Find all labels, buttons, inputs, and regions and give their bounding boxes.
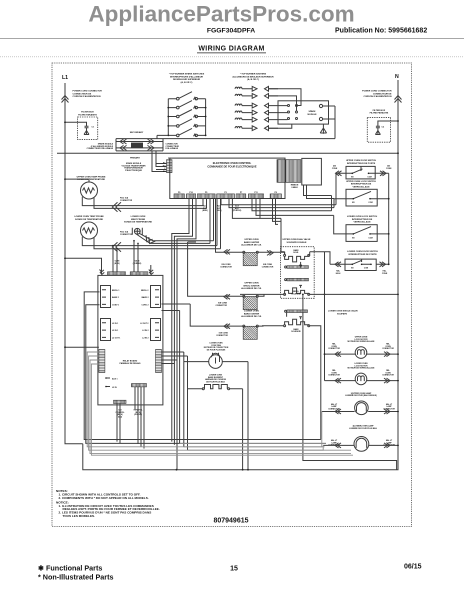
probe2 connector arrows — [112, 242, 121, 251]
svg-text:CONN: CONN — [332, 168, 338, 170]
valve resistor bar 2 — [285, 279, 287, 281]
svg-text:L2 IN 2: L2 IN 2 — [142, 330, 148, 332]
connector P11 — [248, 194, 263, 199]
svg-text:P3: P3 — [224, 192, 226, 194]
wire L1 upper tap — [65, 179, 89, 182]
wire probe1 leads — [82, 197, 206, 209]
svg-text:CORDON D'ALIMENTATION: CORDON D'ALIMENTATION — [73, 95, 101, 98]
lower oven door switch box — [345, 259, 376, 270]
spark switch rail left — [167, 99, 169, 136]
upper oven broil igniter — [243, 295, 258, 309]
wire top horizontal bus — [116, 138, 335, 140]
svg-text:VERROUILLAGE: VERROUILLAGE — [353, 221, 371, 224]
svg-text:D'ELECTRONIQUE: D'ELECTRONIQUE — [125, 170, 143, 172]
wire mid vertical 177.5 — [162, 311, 180, 470]
connector P5 — [197, 194, 215, 199]
wire N to filter box — [378, 121, 398, 126]
svg-text:MOTEUR DE VERROUILLAGE: MOTEUR DE VERROUILLAGE — [348, 340, 376, 343]
svg-text:CONNECTOR: CONNECTOR — [215, 305, 227, 307]
spark switch row 2 — [168, 101, 205, 109]
meat probe connector arrows — [146, 235, 155, 243]
svg-text:CONNECTOR: CONNECTOR — [382, 348, 394, 350]
spark module ground — [320, 124, 326, 134]
svg-text:* TOP BURNER IGNITERS: * TOP BURNER IGNITERS — [240, 74, 267, 76]
svg-text:SPARK: SPARK — [308, 110, 316, 113]
svg-text:P7: P7 — [240, 192, 242, 194]
svg-text:SONDE DE TEMPERATURE: SONDE DE TEMPERATURE — [75, 218, 103, 221]
ground in filter box N — [375, 131, 380, 136]
power cord connector N — [395, 96, 402, 103]
notes block — [56, 489, 160, 518]
spark switch row 4 — [168, 119, 205, 127]
spark transformer module block — [131, 143, 143, 148]
svg-text:NO: NO — [351, 268, 354, 270]
svg-text:NO: NO — [352, 202, 355, 204]
svg-text:L2 OUT 1: L2 OUT 1 — [112, 337, 120, 339]
svg-text:2. COMPONENTS WITH * DO NOT A: 2. COMPONENTS WITH * DO NOT APPEAR ON AL… — [59, 496, 149, 500]
svg-text:SOLE.: SOLE. — [293, 252, 299, 254]
svg-text:807949615: 807949615 — [213, 517, 248, 524]
lamp1 arrows — [335, 409, 390, 414]
svg-text:POWER CORD CONNECTOR: POWER CORD CONNECTOR — [362, 91, 392, 93]
svg-text:ALLUMEUR DE CUI.: ALLUMEUR DE CUI. — [241, 287, 262, 290]
wire lamp row 2 — [323, 444, 398, 446]
bake solenoid coil — [284, 254, 286, 256]
lower lock switch contacts — [346, 227, 377, 234]
svg-text:C1: C1 — [92, 127, 95, 129]
wire L1 to relay edge — [65, 346, 99, 348]
svg-text:UPPER OVEN DUAL VALVE: UPPER OVEN DUAL VALVE — [283, 238, 312, 241]
svg-text:BROIL IGNITER: BROIL IGNITER — [244, 285, 260, 287]
svg-text:UPPER OVEN: UPPER OVEN — [244, 283, 258, 285]
power cord connector L1 — [62, 96, 69, 103]
upper oven bake igniter — [243, 251, 258, 265]
lower oven lock switch box — [346, 225, 377, 242]
svg-text:(A, B OR C): (A, B OR C) — [181, 81, 193, 84]
svg-text:L2 IN 1: L2 IN 1 — [112, 330, 118, 332]
L2 in pin — [106, 386, 110, 388]
svg-text:(PURPLE): (PURPLE) — [233, 210, 242, 212]
wire igniter2 feeds — [188, 242, 264, 296]
svg-text:FGGF304DPFA: FGGF304DPFA — [207, 27, 255, 34]
svg-text:BAKE 2: BAKE 2 — [142, 296, 149, 299]
svg-text:CONNECTOR: CONNECTOR — [216, 335, 228, 337]
svg-text:Publication No: 5995661682: Publication No: 5995661682 — [335, 27, 427, 34]
wires EOC pins down right group — [221, 198, 336, 224]
svg-text:LOWER OVEN LOCK SWITCH: LOWER OVEN LOCK SWITCH — [347, 216, 378, 218]
spark module box — [278, 101, 329, 124]
diagram border frame — [52, 63, 412, 527]
svg-text:LUMIERE DE FOUR PLUS BAS: LUMIERE DE FOUR PLUS BAS — [349, 427, 377, 430]
display board box — [302, 158, 322, 185]
connector P3 — [217, 194, 235, 199]
svg-text:COM: COM — [364, 268, 369, 270]
wire lock motor row 2 — [325, 380, 399, 382]
lower door switch contacts — [345, 259, 371, 264]
svg-text:UPPER OVEN TEMP PROBE: UPPER OVEN TEMP PROBE — [77, 176, 106, 178]
igniter1 left arrow — [224, 249, 230, 254]
svg-text:CONNECTEUR D'ALLUMAGE: CONNECTEUR D'ALLUMAGE — [87, 147, 114, 150]
header rule — [0, 38, 464, 40]
relay edge connector left — [99, 350, 105, 373]
svg-text:LOWER OVEN TEMP PROBE: LOWER OVEN TEMP PROBE — [74, 216, 104, 218]
svg-text:CONN: CONN — [386, 168, 392, 170]
aux pin — [106, 377, 110, 379]
svg-text:CONNECTOR: CONNECTOR — [220, 266, 232, 268]
svg-text:CORDON D'ALIMENTATION: CORDON D'ALIMENTATION — [363, 95, 391, 98]
svg-text:BAKE IGNITER: BAKE IGNITER — [244, 312, 260, 315]
relay right pin block 2 — [151, 319, 161, 341]
ribbon cable — [277, 160, 301, 183]
wire valve top to rail — [281, 218, 325, 255]
svg-text:LOWER OVEN: LOWER OVEN — [244, 311, 259, 313]
svg-text:MODULE: MODULE — [307, 114, 317, 116]
svg-text:INTERRUPTEUR DE PORTE: INTERRUPTEUR DE PORTE — [347, 163, 376, 165]
svg-text:TOUS LES MODELES.: TOUS LES MODELES. — [63, 514, 96, 518]
harness relay feeds left — [84, 292, 326, 444]
upper oven lock switch box — [346, 189, 377, 206]
svg-text:06/15: 06/15 — [404, 564, 422, 571]
wire L1 to filter box — [65, 122, 87, 126]
connector P2 — [167, 160, 173, 173]
ground in filter box — [84, 131, 89, 136]
svg-text:D'ALLUMAGE: D'ALLUMAGE — [166, 147, 179, 150]
wire igniter3 feed — [190, 304, 263, 326]
svg-text:CONNECTOR: CONNECTOR — [120, 234, 133, 236]
svg-text:CABLE: CABLE — [291, 186, 298, 189]
conv fan motor — [209, 355, 223, 369]
svg-text:PRIMARY: PRIMARY — [130, 157, 140, 160]
svg-text:FILTRE PARASITE: FILTRE PARASITE — [78, 113, 97, 116]
svg-text:UPPER OVEN: UPPER OVEN — [244, 239, 258, 241]
svg-text:SECONDARY: SECONDARY — [130, 131, 144, 134]
svg-text:LUMIERE DE FOUR (EAU DESSUS): LUMIERE DE FOUR (EAU DESSUS) — [345, 394, 377, 397]
svg-text:NO: NO — [352, 237, 355, 239]
relay left pin block 1 — [101, 286, 111, 308]
svg-text:AppliancePartsPros.com: AppliancePartsPros.com — [88, 2, 354, 27]
svg-text:WIRING DIAGRAM: WIRING DIAGRAM — [198, 46, 264, 53]
svg-text:SOUPAPE: SOUPAPE — [337, 312, 348, 315]
svg-text:15: 15 — [230, 566, 238, 573]
spark switch rail right — [205, 99, 207, 136]
svg-text:SOLENOID: SOLENOID — [291, 293, 301, 295]
spark module pins — [288, 105, 298, 120]
spark module terminal N — [319, 117, 322, 120]
svg-text:DE BRULEUR SUPERIEUR: DE BRULEUR SUPERIEUR — [173, 79, 201, 81]
svg-text:BROIL 1: BROIL 1 — [112, 290, 119, 292]
harness loop from edge connector — [87, 352, 353, 455]
svg-text:CONNECTOR: CONNECTOR — [262, 266, 274, 268]
svg-text:P8: P8 — [275, 192, 277, 194]
wire probe2 leads — [82, 198, 220, 248]
svg-text:MEAT PROBE: MEAT PROBE — [131, 218, 146, 221]
switch rail dots — [167, 107, 206, 137]
lower oven bake element — [202, 385, 229, 390]
svg-text:P2: P2 — [168, 158, 170, 160]
svg-text:P5: P5 — [205, 192, 207, 194]
svg-text:C2: C2 — [382, 127, 385, 129]
wire igniter1 feed — [216, 198, 285, 254]
wire igniter1 feeds — [172, 198, 196, 452]
svg-text:COMMANDE DE FOUR ELECTRONIQUE: COMMANDE DE FOUR ELECTRONIQUE — [207, 165, 257, 169]
upper oven door switch box — [346, 166, 375, 179]
transformer chevrons left — [120, 139, 127, 150]
svg-text:L1: L1 — [62, 75, 68, 81]
svg-text:* TOP BURNER SPARK SWITCHES: * TOP BURNER SPARK SWITCHES — [169, 73, 205, 76]
spark switch row 3 — [168, 110, 205, 118]
wire upper lock row — [334, 198, 389, 200]
svg-text:UPPER OVEN DOOR SWITCH: UPPER OVEN DOOR SWITCH — [346, 160, 377, 162]
relay left pin block 2 — [101, 319, 111, 341]
wire valve return drop — [303, 294, 397, 469]
door switch connector arrows — [336, 171, 387, 176]
svg-text:PANNEAU DE RELAIS: PANNEAU DE RELAIS — [120, 362, 142, 365]
wire meat probe leads — [136, 198, 213, 243]
svg-text:VERROUILLAGE: VERROUILLAGE — [352, 186, 370, 189]
wires relay bottom drops — [117, 387, 144, 449]
svg-text:BAKE IGNITER: BAKE IGNITER — [244, 241, 260, 244]
svg-text:LOWER OVEN: LOWER OVEN — [131, 216, 146, 218]
wire module to N drop — [323, 106, 335, 139]
connector P9 — [174, 194, 184, 199]
lower lock motor — [355, 373, 367, 385]
svg-text:L2 IN: L2 IN — [112, 387, 117, 389]
svg-text:CONN: CONN — [382, 273, 388, 275]
svg-text:CONNECTOR: CONNECTOR — [120, 200, 133, 202]
switch right rail — [388, 173, 390, 264]
wire primary to P2 — [152, 151, 167, 172]
svg-text:COM: COM — [367, 177, 372, 179]
wire L1 to relay gate — [65, 258, 151, 274]
svg-text:FILTER BOX: FILTER BOX — [373, 110, 386, 112]
wire bottom return — [83, 444, 398, 470]
wire lamp row 1 — [322, 411, 398, 413]
svg-text:(A, B OR C): (A, B OR C) — [247, 78, 259, 81]
transformer chevrons right — [148, 139, 155, 150]
relay board box — [98, 275, 163, 405]
wire element leads — [188, 388, 243, 390]
wire single valve row — [262, 326, 321, 440]
wire lower lock row — [334, 215, 389, 234]
svg-text:AUX 1: AUX 1 — [112, 377, 118, 380]
wire second horizontal bus — [57, 152, 398, 154]
svg-text:ALLUMEUR DE CUI.: ALLUMEUR DE CUI. — [241, 315, 262, 318]
svg-text:CONNECTOR: CONNECTOR — [328, 375, 340, 377]
svg-text:(BRN): (BRN) — [202, 210, 207, 212]
svg-text:LOWER OVEN DOOR SWITCH: LOWER OVEN DOOR SWITCH — [347, 251, 378, 253]
svg-text:P11: P11 — [254, 192, 257, 194]
svg-text:N: N — [395, 74, 399, 80]
svg-text:POWER CORD CONNECTOR: POWER CORD CONNECTOR — [73, 91, 103, 93]
wire rail 331-334 drops — [325, 196, 332, 265]
svg-text:MOTEUR DE VERROUILLAGE: MOTEUR DE VERROUILLAGE — [348, 367, 376, 370]
svg-text:L2 IN 1: L2 IN 1 — [112, 323, 118, 325]
svg-text:BAKE 1: BAKE 1 — [112, 296, 119, 299]
relay gate connector strips — [108, 272, 126, 275]
upper oven dual valve box — [281, 247, 315, 299]
wire valve bottom row — [240, 294, 398, 295]
row2 arrows — [335, 378, 390, 383]
rail 323.8 vertical — [324, 252, 326, 295]
title underline — [197, 52, 266, 54]
center rails — [162, 304, 249, 470]
svg-text:DE FOUR PLUS BAS: DE FOUR PLUS BAS — [206, 381, 225, 384]
svg-text:CONV 2: CONV 2 — [141, 304, 148, 306]
svg-text:UPPER OVEN LOCK SWITCH: UPPER OVEN LOCK SWITCH — [346, 181, 376, 183]
harness bundle bottom — [180, 443, 351, 450]
svg-text:BROIL 2: BROIL 2 — [141, 290, 148, 292]
svg-text:✱ Functional Parts: ✱ Functional Parts — [38, 564, 102, 573]
wire gate drops — [113, 241, 138, 272]
electronic oven control box — [170, 158, 285, 198]
svg-text:DE FOUR PLUS BAS: DE FOUR PLUS BAS — [207, 349, 226, 352]
connector P7 — [236, 194, 246, 199]
svg-text:L2 OUT 2: L2 OUT 2 — [140, 323, 148, 325]
ign conn arrow 3 — [224, 324, 230, 329]
connector P10 — [187, 194, 196, 199]
svg-text:SOLENOID: SOLENOID — [291, 331, 301, 333]
igniter electrode rows — [235, 86, 288, 130]
svg-text:ALLUMEURS DE BRULEUR SUPERIEUR: ALLUMEURS DE BRULEUR SUPERIEUR — [232, 75, 274, 78]
lower oven lamp — [354, 437, 369, 452]
relay corner pins — [100, 270, 154, 275]
wire lower door row — [330, 263, 389, 265]
subheader dotted rule — [0, 56, 464, 58]
wire conv fan leads — [162, 360, 249, 364]
lamp2 arrows — [335, 443, 390, 448]
row1 arrows — [335, 352, 390, 357]
wire switch bank to secondary — [157, 135, 168, 138]
spark switch row 5 — [168, 128, 205, 136]
svg-text:CONNECTEUR DE: CONNECTEUR DE — [73, 93, 92, 95]
svg-text:COM: COM — [368, 202, 373, 204]
single valve solenoid coil — [284, 325, 286, 327]
svg-text:INTERRUPTEUR DE PORTE: INTERRUPTEUR DE PORTE — [348, 254, 377, 256]
wire N bus — [397, 80, 399, 470]
svg-text:ELECTRONIC OVEN CONTROL: ELECTRONIC OVEN CONTROL — [213, 161, 252, 165]
svg-text:RELAY BOARD: RELAY BOARD — [123, 359, 138, 362]
lower oven bake igniter — [243, 325, 258, 339]
svg-text:SONDE DE TEMPERATURE: SONDE DE TEMPERATURE — [124, 221, 152, 224]
svg-text:INTERRUPTEURS D'ALLUMEUR: INTERRUPTEURS D'ALLUMEUR — [170, 75, 203, 78]
temp probe RT2 — [81, 222, 98, 239]
valve resistor bar 1 — [285, 266, 287, 268]
lamp left rail — [324, 294, 326, 380]
upper door switch contacts — [346, 166, 375, 173]
wire lock motor row 1 — [325, 353, 399, 355]
relay edge connector right — [156, 350, 162, 373]
svg-text:ALLUMEUR DE CUI.: ALLUMEUR DE CUI. — [241, 244, 262, 247]
relay right pin block 1 — [151, 286, 161, 308]
svg-text:COM: COM — [368, 237, 373, 239]
ign conn arrow 1 — [267, 250, 273, 255]
svg-text:SOUPAPE DOUBLE: SOUPAPE DOUBLE — [287, 241, 308, 244]
upper oven lamp — [355, 401, 369, 415]
wires igniter rows to module pins — [269, 89, 302, 128]
broil solenoid coil — [284, 293, 286, 295]
svg-text:CONNECTOR: CONNECTOR — [328, 348, 340, 350]
wire L1 bus — [65, 83, 83, 444]
probe1 connector arrows — [112, 202, 121, 211]
wire door switch row — [336, 172, 389, 174]
upper lock switch contacts — [346, 191, 377, 198]
connector P8 — [270, 194, 281, 199]
spark module terminal L1 — [319, 104, 322, 107]
ign conn arrow 2 — [224, 294, 230, 299]
wire rail 336 vertical — [334, 173, 336, 207]
relay bottom connector — [114, 400, 127, 403]
svg-text:L2 IN 2: L2 IN 2 — [142, 337, 148, 339]
svg-text:FILTRE PARASITE: FILTRE PARASITE — [370, 112, 389, 115]
svg-text:* Non-Illustrated Parts: * Non-Illustrated Parts — [38, 573, 113, 582]
svg-text:INTERRUPTEUR DE: INTERRUPTEUR DE — [351, 184, 372, 186]
relay mid connector — [132, 384, 147, 387]
filter box L1 — [78, 117, 98, 140]
temp probe RT1 — [81, 182, 98, 199]
svg-text:P10: P10 — [189, 192, 192, 194]
spark switch row 1 — [168, 92, 205, 100]
upper lock motor — [355, 347, 367, 359]
svg-text:CONNECTEUR DE: CONNECTEUR DE — [373, 93, 392, 95]
single valve resistor bar — [285, 310, 287, 312]
svg-text:P9: P9 — [178, 192, 180, 194]
svg-text:INTERRUPTEUR DE: INTERRUPTEUR DE — [352, 219, 373, 221]
spark transformer assembly — [116, 139, 163, 151]
filter box N — [367, 118, 390, 143]
svg-text:HIGH: HIGH — [336, 273, 341, 275]
lower door connector arrows — [335, 262, 386, 267]
svg-text:LOWER OVEN SINGLE VALVE: LOWER OVEN SINGLE VALVE — [328, 310, 358, 313]
svg-text:CONV 1: CONV 1 — [112, 304, 119, 306]
svg-text:FILTER BOX: FILTER BOX — [81, 112, 94, 114]
wires display drop — [304, 185, 335, 199]
svg-text:CONNECTOR: CONNECTOR — [382, 375, 394, 377]
meat probe jack — [134, 228, 140, 234]
